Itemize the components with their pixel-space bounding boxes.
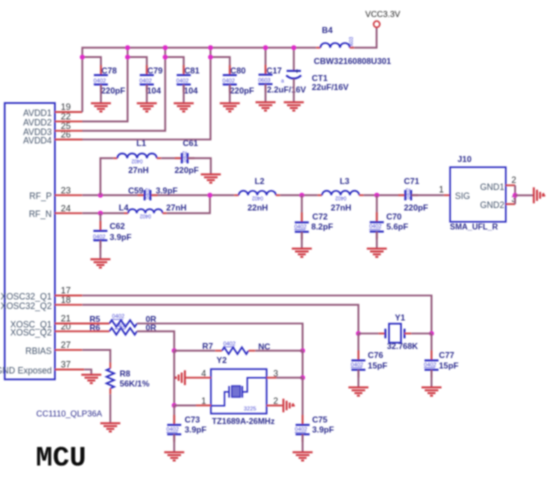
capacitor C62 (93, 221, 131, 248)
junction C81 branch (163, 55, 168, 60)
svg-text:MCU: MCU (36, 444, 86, 475)
svg-text:0402: 0402 (252, 194, 263, 200)
svg-text:AVDD4: AVDD4 (23, 136, 52, 146)
svg-text:CBW32160808U301: CBW32160808U301 (314, 56, 392, 66)
pin number 17 (61, 286, 71, 296)
inductor L3 (322, 176, 359, 213)
svg-text:SIG: SIG (455, 191, 470, 201)
svg-text:Y2: Y2 (217, 355, 228, 365)
junction C79 branch (125, 55, 130, 60)
wire L1 to C61 (161, 157, 181, 159)
pin name XOSC32_Q2 (0, 301, 51, 311)
svg-text:C71: C71 (404, 176, 420, 186)
svg-text:8.2pF: 8.2pF (311, 222, 333, 232)
ground CT1 (284, 102, 304, 110)
svg-text:TZ1689A-26MHz: TZ1689A-26MHz (212, 417, 275, 426)
wire C76 lead (357, 334, 359, 361)
pin number 1 Y2 (201, 396, 206, 406)
junction RF merge (207, 193, 212, 198)
svg-text:L4: L4 (119, 202, 129, 212)
Y1 right pin (405, 333, 412, 335)
svg-text:22nH: 22nH (248, 203, 268, 213)
junction bus C17 (263, 45, 268, 50)
wire C73 to gnd (173, 434, 175, 452)
pin number 1 J10 (439, 185, 444, 195)
pin 26 stub (55, 139, 83, 141)
svg-text:L3: L3 (340, 176, 350, 186)
svg-text:C81: C81 (184, 66, 200, 76)
ground Y2 pin4 rotated (176, 370, 185, 385)
svg-text:32.768K: 32.768K (387, 342, 418, 351)
svg-text:1: 1 (201, 396, 206, 406)
svg-text:R7: R7 (202, 341, 213, 351)
svg-text:+: + (295, 68, 299, 75)
R8 bottom pin (109, 388, 111, 394)
svg-text:37: 37 (61, 360, 71, 370)
L4 right pin (163, 212, 167, 214)
pin 25 stub (55, 130, 83, 132)
pin number 18 (61, 295, 71, 305)
inductor B4 (314, 25, 392, 66)
junction RF_N C62 (98, 211, 103, 216)
capacitor C61 (175, 138, 199, 175)
junction R7 right (300, 348, 305, 353)
ground Y2 pin2 tail tick (293, 403, 295, 406)
svg-text:R8: R8 (120, 369, 131, 379)
svg-text:GND Exposed: GND Exposed (0, 366, 52, 376)
svg-text:56K/1%: 56K/1% (120, 379, 150, 389)
inductor L4 (119, 202, 187, 218)
inductor L1 (117, 138, 157, 175)
ground exposed pad (81, 375, 101, 383)
capacitor C78 (94, 65, 126, 96)
ground J10 rotated (534, 187, 543, 203)
pin number 27 (61, 340, 71, 350)
wire branch to C81 (165, 57, 184, 75)
junction RF_P branch (98, 193, 103, 198)
ground C76 (348, 387, 368, 395)
junction Y2 pin3 (300, 375, 305, 380)
junction Y2 pin1 (172, 403, 177, 408)
ground C75 (293, 452, 313, 460)
wire pin26 to bus riser (82, 48, 210, 140)
pin name GND1 (480, 182, 505, 192)
wire C77 lead (431, 334, 433, 361)
pin name SIG (455, 191, 470, 201)
svg-text:0603: 0603 (349, 37, 355, 48)
svg-text:27nH: 27nH (128, 165, 148, 175)
ground C79 (137, 103, 157, 111)
wire pin25 to bus riser (82, 48, 165, 131)
svg-text:C62: C62 (110, 221, 126, 231)
wire C70 lead (376, 195, 378, 222)
sheet title MCU (36, 444, 86, 475)
J10 pin3 stub (506, 203, 515, 205)
power port VCC3.3V (365, 9, 400, 28)
wire J10 to gnd symbol (515, 194, 534, 196)
junction C80 branch (208, 55, 213, 60)
ground Y2 pin2 rotated (283, 399, 292, 413)
svg-text:15pF: 15pF (439, 360, 459, 370)
svg-text:3225: 3225 (244, 407, 256, 413)
mcu footprint label CC1110_QLP36A (36, 408, 102, 418)
svg-text:SMA_UFL_R: SMA_UFL_R (450, 223, 498, 232)
svg-text:220pF: 220pF (230, 86, 254, 96)
crystal Y1 (385, 312, 418, 351)
pin number 37 (61, 360, 71, 370)
capacitor C75 (295, 414, 334, 442)
pin name RF_P (29, 191, 52, 201)
svg-text:C70: C70 (386, 211, 402, 221)
svg-text:22uF/16V: 22uF/16V (312, 82, 349, 92)
L1 left pin (113, 157, 117, 159)
svg-text:C80: C80 (230, 66, 246, 76)
pin name GND2 (480, 200, 505, 210)
svg-text:C73: C73 (185, 414, 201, 424)
junction bus x127 (125, 45, 130, 50)
pin name AVDD2 (23, 117, 52, 127)
svg-text:27: 27 (61, 340, 71, 350)
L2 right pin (276, 194, 280, 196)
pin number 19 (61, 102, 71, 112)
wire C79 to gnd (146, 85, 148, 104)
junction pin19/C78 branch (80, 55, 85, 60)
ground C17 (256, 102, 276, 110)
junction bus CT1 (291, 45, 296, 50)
svg-text:a: a (281, 79, 284, 85)
capacitor C77 (424, 350, 459, 377)
svg-text:0402: 0402 (145, 188, 151, 199)
pin 19 stub (55, 111, 82, 113)
wire C75 to gnd (302, 434, 304, 452)
svg-text:J10: J10 (458, 154, 472, 164)
svg-text:220pF: 220pF (175, 165, 199, 175)
R7 right pin (249, 350, 256, 352)
R7 left pin (215, 350, 222, 352)
ground C78 (91, 103, 111, 111)
wire bus drop to CT1 (293, 48, 295, 71)
svg-text:RF_P: RF_P (29, 191, 52, 201)
svg-text:220pF: 220pF (101, 86, 125, 96)
R8 top pin (109, 363, 111, 369)
svg-text:104: 104 (184, 86, 198, 96)
svg-text:L1: L1 (136, 138, 146, 148)
junction Y1 right (429, 331, 434, 336)
pin number 21 (61, 314, 71, 324)
capacitor C76 (351, 350, 388, 377)
junction C72 (299, 193, 304, 198)
svg-text:C79: C79 (147, 66, 163, 76)
pin 27 stub (55, 349, 82, 351)
B4 left pin (316, 47, 320, 49)
Y2 pin4 stub (185, 377, 211, 379)
L4 left pin (124, 212, 128, 214)
svg-text:0402: 0402 (183, 151, 189, 162)
pin name AVDD4 (23, 136, 52, 146)
svg-text:15pF: 15pF (368, 360, 388, 370)
Y2 pin1 stub (196, 404, 211, 406)
pin 23 stub (55, 194, 82, 196)
capacitor C72 (294, 211, 333, 239)
svg-text:0402: 0402 (131, 158, 142, 164)
wire bus drop to C17 (265, 48, 267, 75)
inductor L2 (239, 176, 276, 213)
svg-text:RF_N: RF_N (29, 209, 52, 219)
L1 right pin (157, 157, 161, 159)
wire Y2 pin1 (174, 404, 196, 406)
junction C70 (374, 193, 379, 198)
wire C62 lead (99, 213, 101, 231)
ground C62 (90, 259, 110, 267)
pin name GND Exposed (0, 366, 52, 376)
svg-text:23: 23 (61, 185, 71, 195)
pin number 20 (61, 322, 71, 332)
svg-text:3.9pF: 3.9pF (312, 425, 334, 435)
wire C76 to gnd (357, 370, 359, 388)
svg-text:27nH: 27nH (166, 202, 186, 212)
pin name XOSC32_Q1 (0, 292, 51, 302)
resistor R7 (202, 341, 270, 354)
wire C59 to L2 node (151, 194, 235, 196)
pin number 25 (61, 121, 71, 131)
pin 17 stub (55, 295, 82, 297)
pin name AVDD3 (23, 127, 52, 137)
wire R5 to corner (137, 324, 303, 351)
svg-text:GND1: GND1 (480, 182, 505, 192)
wire Y1 right wire (411, 333, 431, 335)
svg-text:CC1110_QLP36A: CC1110_QLP36A (36, 408, 102, 418)
ground C77 (422, 387, 442, 395)
wire C17 to gnd (265, 84, 267, 102)
svg-text:GND2: GND2 (480, 200, 505, 210)
B4 right pin (350, 47, 354, 49)
svg-text:1: 1 (439, 185, 444, 195)
svg-text:3: 3 (273, 368, 278, 378)
wire C61 to gnd corner (188, 158, 211, 174)
capacitor C71 (398, 176, 428, 213)
pin number 26 (61, 130, 71, 140)
ground C80 (220, 103, 240, 111)
wire pin22 to bus riser (82, 48, 127, 122)
wire Y2 pin3 (276, 377, 302, 379)
resistor R5 (90, 314, 157, 327)
wire R8 to gnd (109, 394, 111, 423)
pin name XOSC_Q2 (10, 327, 52, 337)
svg-text:3.9pF: 3.9pF (185, 425, 207, 435)
svg-text:R6: R6 (90, 322, 101, 332)
wire Y1 left wire (358, 333, 378, 335)
capacitor C73 (166, 414, 206, 442)
junction bus x210 (208, 45, 213, 50)
wire L2 to C72 node (280, 194, 317, 196)
wire branch to C79 (128, 57, 147, 75)
resistor R6 (90, 322, 157, 334)
pin 22 stub (55, 120, 83, 122)
svg-text:XOSC32_Q2: XOSC32_Q2 (0, 301, 51, 311)
wire left vertical to C73 (173, 405, 175, 425)
ground C73 (164, 452, 184, 460)
wire branch to C80 (211, 57, 230, 75)
wire C80 to gnd (229, 85, 231, 104)
capacitor C17 (258, 65, 306, 95)
ground C70 (367, 249, 387, 257)
svg-text:C59: C59 (128, 185, 144, 195)
svg-text:3.9pF: 3.9pF (110, 232, 132, 242)
capacitor C59 (128, 185, 177, 200)
capacitor CT1 electrolytic (281, 68, 349, 92)
pin 37 stub (55, 369, 84, 371)
svg-text:2.2uF/16V: 2.2uF/16V (267, 85, 307, 95)
crystal Y2 internal symbol (211, 378, 266, 413)
pin number 24 (61, 203, 71, 213)
pin name XOSC_Q1 (10, 320, 52, 330)
wire CT1 to gnd (293, 79, 295, 102)
svg-text:C76: C76 (368, 350, 384, 360)
svg-text:XOSC_Q2: XOSC_Q2 (10, 327, 52, 337)
wire R6 to corner (137, 331, 174, 350)
junction bus x165 (163, 45, 168, 50)
wire C78 to gnd (100, 85, 102, 104)
L3 right pin (359, 194, 363, 196)
mcu U1 CC1110 box (5, 103, 55, 379)
wire pin19 riser to VCC bus (82, 48, 316, 112)
wire C62 to gnd (99, 240, 101, 259)
capacitor C80 (222, 65, 254, 96)
ground J10 tail tick (543, 193, 545, 196)
wire R7 right (255, 350, 302, 352)
wire B4 to VCC (354, 28, 376, 48)
wire C72 lead (301, 195, 303, 222)
wire L3 to C70 node (364, 194, 404, 196)
svg-text:5.6pF: 5.6pF (386, 222, 408, 232)
wire L4 to merge (167, 195, 210, 213)
pin 18 stub (55, 304, 82, 306)
svg-text:18: 18 (61, 295, 71, 305)
ground R8 (100, 423, 120, 431)
svg-text:4: 4 (201, 368, 206, 378)
wire C70 to gnd (376, 232, 378, 249)
svg-text:C61: C61 (183, 138, 199, 148)
wire left vertical to Y2 pin1 (173, 351, 175, 406)
junction Y1 left (356, 331, 361, 336)
svg-text:C77: C77 (439, 350, 455, 360)
junction J10 gnd (513, 193, 518, 198)
svg-text:VCC3.3V: VCC3.3V (365, 9, 400, 19)
Y1 left pin (379, 333, 386, 335)
pin number 3 J10 (511, 194, 516, 204)
pin number 2 Y2 (273, 396, 278, 406)
svg-text:3.9pF: 3.9pF (156, 185, 178, 195)
wire branch riser L1 (100, 158, 113, 195)
wire C77 to gnd (431, 370, 433, 388)
pin name RBIAS (25, 346, 52, 356)
wire RBIAS to R8 (82, 350, 110, 363)
resistor R8 (107, 368, 150, 388)
crystal Y2 box (211, 355, 275, 426)
wire pin37 to gnd (84, 370, 91, 375)
svg-text:2: 2 (511, 175, 516, 185)
svg-text:L2: L2 (255, 176, 265, 186)
L3 left pin (318, 194, 322, 196)
Y2 pin3 stub (267, 377, 277, 379)
Y2 pin2 stub (267, 405, 283, 407)
ground C61 (201, 174, 221, 182)
pin number 4 Y2 (201, 368, 206, 378)
junction R7 left (172, 348, 177, 353)
ground C72 (292, 249, 312, 257)
pin number 3 Y2 (273, 368, 278, 378)
svg-text:C72: C72 (312, 211, 328, 221)
wire RF_N segment (82, 212, 124, 214)
ground C81 (174, 103, 194, 111)
wire pin17 to Y1 right (82, 296, 431, 334)
wire right vertical to Y2 pin3 (302, 351, 304, 378)
wire right vertical to C75 (302, 378, 304, 425)
pin 21 stub (55, 323, 110, 325)
svg-text:C75: C75 (312, 414, 328, 424)
svg-text:0402: 0402 (335, 194, 346, 200)
svg-text:104: 104 (147, 86, 161, 96)
L2 left pin (234, 194, 239, 196)
svg-text:C78: C78 (101, 66, 117, 76)
svg-text:C17: C17 (266, 65, 282, 75)
wire R7 left (174, 350, 215, 352)
pin number 22 (61, 112, 71, 122)
pin number 23 (61, 185, 71, 195)
svg-text:27nH: 27nH (331, 203, 351, 213)
svg-text:RBIAS: RBIAS (25, 346, 52, 356)
capacitor C81 (176, 65, 200, 96)
svg-text:0402: 0402 (406, 188, 412, 199)
wire pin18 to Y1 left (82, 305, 358, 334)
svg-text:2: 2 (273, 396, 278, 406)
svg-text:24: 24 (61, 203, 71, 213)
J10 pin1 stub (444, 194, 450, 196)
svg-text:Y1: Y1 (395, 312, 406, 322)
wire C71 to J10 (411, 194, 444, 196)
wire RF_P to C59 (82, 194, 144, 196)
wire J10 gnd tie (514, 185, 516, 204)
svg-text:B4: B4 (322, 25, 333, 35)
connector J10 box (450, 154, 506, 232)
J10 pin2 stub (506, 184, 515, 186)
wire C72 to gnd (301, 232, 303, 249)
capacitor C70 (369, 211, 408, 239)
wire branch to C78 (82, 57, 101, 75)
svg-text:0402: 0402 (140, 213, 151, 219)
pin name RF_N (29, 209, 52, 219)
pin name AVDD1 (23, 108, 52, 118)
svg-text:220pF: 220pF (404, 203, 428, 213)
pin 20 stub (55, 330, 110, 332)
pin 24 stub (55, 212, 82, 214)
wire C81 to gnd (183, 85, 185, 104)
capacitor C79 (139, 65, 163, 96)
pin number 2 J10 (511, 175, 516, 185)
